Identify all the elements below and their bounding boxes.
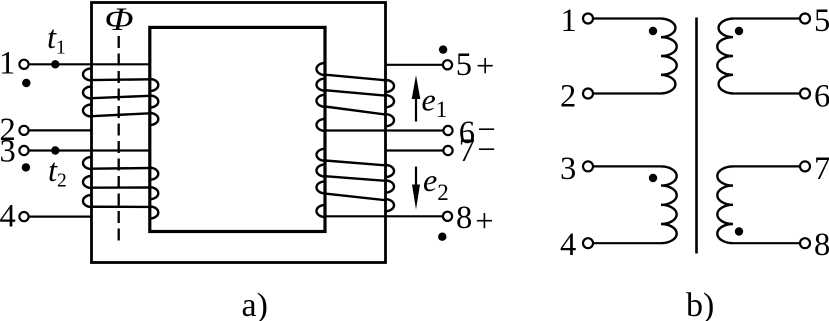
svg-text:3: 3 xyxy=(0,134,16,170)
wire terminal 2 to core xyxy=(29,129,92,131)
svg-text:7: 7 xyxy=(814,151,829,187)
svg-text:2: 2 xyxy=(560,78,576,114)
terminal 5 (node 5) xyxy=(443,60,452,69)
terminal 1 (node 1) xyxy=(19,60,28,69)
wire core to terminal 6 xyxy=(325,129,443,131)
arrow e1 (emf up) xyxy=(412,75,421,122)
wire core to terminal 5 xyxy=(386,64,443,66)
winding 3-4 (left limb, lower coil) xyxy=(83,157,158,219)
svg-text:5+: 5+ xyxy=(456,47,495,85)
terminal 8 (part b) xyxy=(800,238,810,248)
terminal 7 (part b) xyxy=(800,161,810,171)
svg-text:6: 6 xyxy=(814,78,829,114)
svg-text:4: 4 xyxy=(0,199,16,235)
terminal 6 (part b) xyxy=(800,89,810,99)
terminal 4 (part b) xyxy=(583,238,593,248)
terminal 7 (node 7) xyxy=(443,146,452,155)
svg-text:7−: 7− xyxy=(459,132,496,169)
dot polarity below terminal 1 xyxy=(22,79,30,87)
inductor winding 1-2 (part b) xyxy=(593,19,677,94)
wire terminal 1 to core xyxy=(29,63,150,65)
dot polarity winding 1-2 xyxy=(649,27,657,35)
terminal 1 (part b) xyxy=(583,14,593,24)
dot t1 on wire 1 xyxy=(51,60,59,68)
arrow e2 (emf down) xyxy=(412,167,420,210)
terminal 2 (node 2) xyxy=(19,126,28,135)
winding 7-8 (right limb, lower coil) xyxy=(317,149,395,217)
terminal 8 (node 8) xyxy=(443,212,452,221)
dot polarity above terminal 5 xyxy=(439,45,447,53)
dot polarity winding 7-8 xyxy=(735,227,743,235)
inductor winding 7-8 (part b) xyxy=(717,166,800,243)
terminal 3 (part b) xyxy=(583,161,593,171)
wire terminal 4 to core xyxy=(29,216,92,218)
terminal 5 (part b) xyxy=(800,14,810,24)
svg-text:b): b) xyxy=(686,287,714,321)
svg-text:e1: e1 xyxy=(422,82,448,123)
wire core to terminal 7 xyxy=(386,149,444,151)
dot polarity below terminal 3 xyxy=(22,163,30,171)
terminal 4 (node 4) xyxy=(19,212,28,221)
svg-text:3: 3 xyxy=(560,151,576,187)
winding 5-6 (right limb, upper coil) xyxy=(317,63,395,131)
dot polarity below terminal 8 xyxy=(438,233,446,241)
terminal 6 (node 6) xyxy=(443,126,452,135)
winding 1-2 (left limb, upper coil) xyxy=(83,68,158,125)
svg-text:4: 4 xyxy=(560,227,576,263)
wire core to terminal 8 xyxy=(325,215,443,217)
svg-text:t1: t1 xyxy=(47,20,66,58)
svg-text:5: 5 xyxy=(814,3,829,39)
core inner window (part a) xyxy=(150,27,325,231)
svg-text:1: 1 xyxy=(561,3,577,39)
core line (part b) xyxy=(695,18,698,254)
dot polarity winding 3-4 xyxy=(649,174,657,182)
svg-text:8+: 8+ xyxy=(456,200,494,239)
flux line dashed (flux Phi) xyxy=(118,36,120,246)
inductor winding 3-4 (part b) xyxy=(593,166,677,243)
dot t2 on wire 3 xyxy=(51,146,59,154)
svg-text:8: 8 xyxy=(814,227,829,263)
svg-text:t2: t2 xyxy=(48,153,67,191)
svg-text:e2: e2 xyxy=(423,162,449,205)
dot polarity winding 5-6 xyxy=(735,27,743,35)
terminal 2 (part b) xyxy=(583,89,593,99)
svg-text:1: 1 xyxy=(0,46,15,82)
terminal 3 (node 3) xyxy=(19,146,28,155)
core outer limb (part a) xyxy=(92,3,386,263)
svg-text:Φ: Φ xyxy=(105,2,134,38)
wire terminal 3 to core xyxy=(29,149,150,151)
inductor winding 5-6 (part b) xyxy=(717,19,800,94)
svg-text:a): a) xyxy=(242,287,268,321)
